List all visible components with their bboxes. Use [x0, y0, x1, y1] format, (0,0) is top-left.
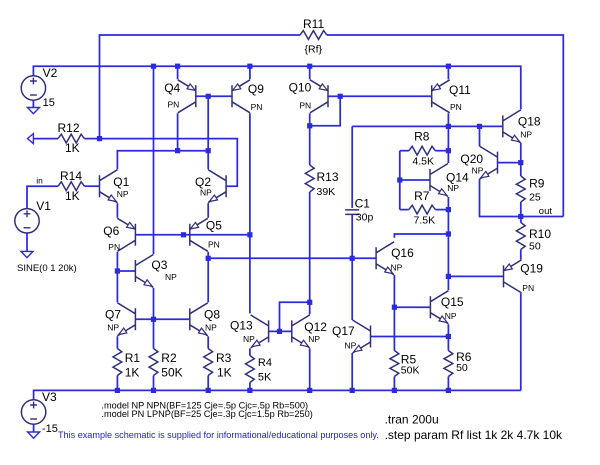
- svg-text:NP: NP: [445, 311, 457, 321]
- wire R2 column: [153, 319, 155, 348]
- wire Q10 base to Q11 base: [340, 95, 432, 97]
- transistor Q13: [251, 315, 269, 348]
- svg-text:50: 50: [529, 241, 541, 253]
- junction at (448.4,150.7): [446, 148, 451, 153]
- resistor R13: [305, 165, 314, 192]
- junction at (352.2,258.3): [350, 256, 355, 261]
- junction at (448.4,234): [446, 231, 451, 236]
- svg-text:Q9: Q9: [248, 82, 264, 96]
- wire Q6 collector to Q3 base / Q7 collector: [116, 252, 118, 302]
- wire Q19 collector to V- rail: [520, 293, 522, 390]
- wire Q11 emitter: [447, 66, 449, 79]
- wire Q3 emitter to R2 node: [153, 288, 155, 319]
- svg-text:PN: PN: [168, 100, 180, 110]
- svg-text:1K: 1K: [217, 366, 232, 380]
- resistor R3: [204, 349, 213, 376]
- voltage source V2: [21, 76, 45, 100]
- junction at (309.7,390.4): [307, 388, 312, 393]
- svg-text:NP: NP: [308, 334, 320, 344]
- wire Q16 emitter to Q15 base row: [393, 275, 395, 307]
- wire R11 right to out node: [327, 35, 563, 217]
- transistor Q5: [190, 218, 208, 251]
- junction at (352.2,390.4): [350, 388, 355, 393]
- svg-text:NP: NP: [472, 166, 484, 176]
- svg-text:V1: V1: [36, 199, 51, 213]
- svg-text:39K: 39K: [317, 186, 336, 198]
- transistor Q10: [310, 80, 328, 113]
- wire V1 to ground: [26, 233, 28, 251]
- wire VAS node row: [207, 252, 209, 258]
- junction at (394.4,390.4): [392, 388, 397, 393]
- junction at (208.2,390.4): [206, 388, 211, 393]
- svg-text:.tran 200u: .tran 200u: [385, 413, 439, 427]
- svg-text:1K: 1K: [65, 189, 80, 203]
- wire Q2-Q5 emitters: [207, 203, 209, 218]
- svg-text:R10: R10: [529, 227, 551, 241]
- junction at (208.2,150.7): [206, 148, 211, 153]
- transistor Q9: [232, 80, 250, 113]
- svg-text:4.5K: 4.5K: [412, 156, 434, 168]
- svg-text:{Rf}: {Rf}: [305, 44, 323, 56]
- resistor R11: [300, 31, 327, 40]
- ground flag at R12: [28, 134, 34, 144]
- wire Q8 emitter to R3: [207, 336, 209, 348]
- transistor Q16: [376, 242, 394, 275]
- transistor Q17: [353, 320, 371, 353]
- svg-text:R1: R1: [125, 351, 141, 365]
- wire R7 legs: [400, 209, 409, 211]
- svg-text:Q3: Q3: [151, 258, 167, 272]
- wire R5 column: [393, 307, 395, 350]
- wire Q11 collector row to Q18 base: [447, 113, 449, 126]
- svg-text:NP: NP: [520, 130, 532, 140]
- wire R1 to rail: [116, 376, 118, 391]
- svg-text:R4: R4: [258, 357, 272, 369]
- svg-text:50: 50: [456, 362, 468, 374]
- junction at (448.4,276.4): [446, 274, 451, 279]
- junction at (208.2,258.3): [206, 256, 211, 261]
- wire Q10 base-collector tie: [328, 95, 340, 97]
- svg-text:This example schematic is supp: This example schematic is supplied for i…: [58, 430, 379, 440]
- resistor R8: [409, 146, 435, 155]
- svg-text:in: in: [36, 176, 43, 186]
- wire Q20 emitter to out row: [480, 179, 564, 216]
- wire Q5-Q6 base row: [135, 234, 250, 236]
- svg-text:Q6: Q6: [103, 224, 119, 238]
- svg-text:Q15: Q15: [441, 295, 464, 309]
- svg-text:Q20: Q20: [460, 152, 483, 166]
- transistor Q11: [432, 80, 450, 113]
- wire Q12 collector: [309, 302, 311, 314]
- resistor R7: [409, 205, 435, 214]
- junction at (448.4,209.6): [446, 207, 451, 212]
- wire V3 to ground: [33, 424, 35, 432]
- svg-text:-15: -15: [42, 423, 58, 435]
- svg-text:R12: R12: [58, 121, 80, 135]
- transistor Q12: [292, 315, 310, 348]
- svg-text:Q17: Q17: [332, 324, 355, 338]
- wire R8 right leg: [435, 150, 448, 152]
- ground under V3: [28, 432, 40, 438]
- wire V2 to ground: [32, 100, 34, 107]
- transistor Q4: [178, 80, 196, 113]
- junction at (394.4,307.2): [392, 305, 397, 310]
- svg-text:C1: C1: [355, 197, 371, 211]
- svg-text:5K: 5K: [258, 372, 272, 384]
- transistor Q8: [190, 303, 208, 336]
- svg-text:PN: PN: [522, 283, 534, 293]
- svg-text:Q13: Q13: [230, 319, 253, 333]
- wire Q4-Q9 base tie: [196, 95, 232, 97]
- wire R12 row to Q2 base drop: [33, 138, 58, 140]
- wire Q18 emitter to Q20 base node: [520, 143, 522, 163]
- resistor R14: [58, 182, 84, 191]
- svg-text:R3: R3: [216, 351, 232, 365]
- transistor Q7: [117, 303, 135, 336]
- svg-text:R13: R13: [317, 170, 339, 184]
- junction at (153.5,66.2): [151, 64, 156, 69]
- resistor R12: [58, 134, 84, 143]
- svg-text:R2: R2: [161, 351, 177, 365]
- wire Q20 collector: [479, 126, 481, 146]
- junction at (479.5,126.4): [477, 124, 482, 129]
- junction at (249.9,390.4): [247, 388, 252, 393]
- transistor Q18: [503, 110, 521, 143]
- junction at (279.5,331.4): [277, 329, 282, 334]
- junction at (117.4,390.4): [115, 388, 120, 393]
- wire C1 bottom to VAS row: [351, 214, 353, 258]
- wire Q20 base: [498, 162, 521, 164]
- wire Q9 collector long drop: [249, 113, 251, 313]
- junction at (520.8,216.5): [518, 214, 523, 219]
- svg-text:NP: NP: [117, 189, 129, 199]
- svg-text:.model PN LPNP(BF=25 Cje=.3p C: .model PN LPNP(BF=25 Cje=.3p Cjc=1.5p Rb…: [101, 409, 312, 419]
- junction at (183.5,234.8): [181, 232, 186, 237]
- wire R13 to Q12 tie: [309, 192, 311, 302]
- wire Q8 collector: [207, 258, 209, 302]
- svg-text:R14: R14: [60, 169, 82, 183]
- wire Q17 base row: [371, 336, 449, 338]
- wire Q16 collector row: [394, 234, 448, 238]
- junction at (448.4,66.2): [446, 64, 451, 69]
- svg-text:NP: NP: [447, 183, 459, 193]
- transistor Q14: [430, 164, 448, 197]
- wire V- rail: [34, 390, 521, 400]
- junction at (520.8,162.6): [518, 160, 523, 165]
- wire R9 legs: [520, 163, 522, 176]
- wire Q4 emitter: [177, 66, 179, 79]
- svg-text:50K: 50K: [161, 366, 182, 380]
- wire R10 legs: [520, 217, 522, 223]
- svg-text:Q18: Q18: [518, 115, 541, 129]
- svg-text:NP: NP: [165, 272, 177, 282]
- junction at (309.7,125.8): [307, 123, 312, 128]
- svg-text:15: 15: [43, 97, 55, 109]
- svg-text:Q16: Q16: [391, 246, 414, 260]
- svg-text:NP: NP: [243, 334, 255, 344]
- wire Q7-Q8 base row: [135, 318, 189, 320]
- transistor Q1: [100, 170, 118, 203]
- transistor Q15: [430, 291, 448, 324]
- svg-text:V2: V2: [43, 66, 58, 80]
- junction at (153.5,319.3): [151, 317, 156, 322]
- svg-text:NP: NP: [345, 341, 357, 351]
- svg-text:Q8: Q8: [204, 307, 220, 321]
- wire C1 top: [351, 126, 353, 207]
- svg-text:PN: PN: [251, 102, 263, 112]
- wire Q4 collector to mirror row: [177, 113, 179, 150]
- resistor R2: [149, 349, 158, 376]
- ground under V2: [27, 108, 39, 114]
- junction at (309.7,302.3): [307, 300, 312, 305]
- svg-text:NP: NP: [107, 323, 119, 333]
- svg-text:Q7: Q7: [105, 307, 121, 321]
- ground under V1: [21, 251, 33, 257]
- junction at (208.2,96.3): [206, 94, 211, 99]
- junction at (399.8,180): [397, 177, 402, 182]
- wire R14 to Q1 base: [84, 185, 99, 187]
- junction at (448.4,336.5): [446, 334, 451, 339]
- transistor Q2: [208, 170, 226, 203]
- junction at (249.9,66.2): [247, 64, 252, 69]
- svg-text:R8: R8: [414, 130, 430, 144]
- svg-text:PN: PN: [108, 242, 120, 252]
- svg-text:out: out: [539, 206, 553, 217]
- wire Q15 emitter to R6: [447, 324, 449, 336]
- junction at (448.4,126.4): [446, 124, 451, 129]
- wire input V1 to R14: [27, 186, 58, 208]
- svg-text:Q1: Q1: [113, 175, 129, 189]
- wire Q17 collector: [351, 258, 353, 320]
- svg-text:R7: R7: [414, 189, 430, 203]
- voltage source V1: [15, 209, 39, 233]
- wire Q3 base: [117, 270, 135, 272]
- svg-text:Q10: Q10: [289, 81, 312, 95]
- wire Q1 collector to mirror row: [117, 151, 208, 170]
- svg-text:NP: NP: [200, 187, 212, 197]
- resistor R5: [390, 351, 399, 377]
- svg-text:30p: 30p: [356, 212, 374, 224]
- junction at (99.5,138.6): [97, 136, 102, 141]
- wire Q10 emitter: [309, 66, 311, 79]
- resistor R6: [444, 351, 453, 377]
- resistor R1: [113, 349, 122, 376]
- resistor R10: [516, 223, 525, 250]
- wire Q12 base-collector tie: [280, 302, 310, 331]
- svg-text:1K: 1K: [65, 141, 80, 155]
- wire Q15 collector: [447, 276, 449, 290]
- svg-text:Q12: Q12: [304, 320, 327, 334]
- junction at (448.4,390.4): [446, 388, 451, 393]
- wire Q1-Q6 emitters: [116, 203, 118, 218]
- junction at (117.4,271): [115, 268, 120, 273]
- wire Q12 emitter to rail: [309, 348, 311, 390]
- svg-text:Q4: Q4: [164, 81, 180, 95]
- svg-text:PN: PN: [208, 240, 220, 250]
- wire Q14 base: [400, 179, 430, 181]
- svg-text:R9: R9: [529, 177, 545, 191]
- svg-text:NP: NP: [205, 323, 217, 333]
- junction at (177.6,150.7): [175, 148, 180, 153]
- wire Q19 base row: [448, 275, 503, 277]
- wire Q10 collector to R13: [309, 113, 311, 165]
- wire V+ drop to Q3 collector: [153, 66, 155, 254]
- svg-text:50K: 50K: [401, 365, 420, 377]
- svg-text:PN: PN: [450, 102, 462, 112]
- svg-text:25: 25: [529, 192, 541, 204]
- transistor Q6: [117, 218, 135, 251]
- wire Q13 emitter to R4: [249, 348, 251, 355]
- wire Vbe multiplier column: [447, 126, 449, 150]
- svg-text:7.5K: 7.5K: [414, 215, 436, 227]
- junction at (153.5,390.4): [151, 388, 156, 393]
- svg-text:SINE(0 1 20k): SINE(0 1 20k): [17, 263, 77, 274]
- svg-text:PN: PN: [299, 101, 311, 111]
- junction at (340.2,96.3): [338, 94, 343, 99]
- svg-text:1K: 1K: [125, 366, 140, 380]
- svg-text:R11: R11: [303, 17, 324, 31]
- wire Q7 emitter to R1: [116, 336, 118, 348]
- junction at (309.7,66.2): [307, 64, 312, 69]
- junction at (249.9,234.8): [247, 232, 252, 237]
- transistor Q19: [504, 260, 522, 293]
- svg-text:NP: NP: [391, 262, 403, 272]
- resistor R4: [246, 356, 255, 383]
- svg-text:V3: V3: [42, 390, 57, 404]
- wire Q9 emitter: [249, 66, 251, 79]
- wire R8 left leg: [400, 150, 409, 152]
- capacitor C1: [345, 210, 359, 215]
- transistor Q20: [480, 146, 498, 179]
- svg-text:Q19: Q19: [520, 261, 543, 275]
- voltage source V3: [21, 400, 45, 424]
- wire Q13-Q12 base row: [269, 330, 292, 332]
- wire feedback top (R11 row): [100, 35, 301, 139]
- svg-text:Q11: Q11: [449, 83, 471, 97]
- resistor R9: [516, 176, 525, 202]
- transistor Q3: [135, 255, 153, 288]
- svg-text:.step param Rf list 1k 2k 4.7k: .step param Rf list 1k 2k 4.7k 10k: [385, 428, 563, 442]
- junction at (177.6,66.2): [175, 64, 180, 69]
- wire Q17 emitter to rail: [351, 353, 353, 390]
- svg-text:Q5: Q5: [206, 219, 222, 233]
- wire V+ rail: [33, 66, 520, 109]
